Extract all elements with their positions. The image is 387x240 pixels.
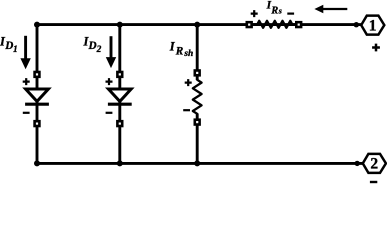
- wire top bus: [36, 23, 361, 26]
- current arrow I_Rs direction: [314, 5, 347, 14]
- svg-text:s: s: [278, 6, 282, 15]
- node junction top D1: [34, 22, 40, 28]
- label I_Rs: [266, 0, 282, 16]
- wire branch Rsh vertical upper: [196, 25, 199, 80]
- diode D1: [23, 71, 49, 128]
- label I_Rsh: [169, 39, 193, 58]
- terminal port 2: [363, 154, 386, 173]
- diode D2: [106, 71, 132, 128]
- node junction bottom Rsh: [194, 160, 200, 166]
- svg-text:R: R: [270, 5, 278, 16]
- resistor Rsh: [183, 69, 201, 126]
- current arrow I_D2: [106, 36, 116, 68]
- svg-text:1: 1: [13, 45, 18, 55]
- node junction bottom D1: [34, 160, 40, 166]
- wire branch D1 vertical: [36, 25, 39, 164]
- svg-text:D: D: [88, 40, 97, 52]
- label I_D2: [83, 35, 102, 55]
- wire branch D2 vertical: [118, 25, 121, 164]
- node junction terminal 2: [355, 161, 360, 166]
- svg-text:2: 2: [370, 156, 378, 173]
- node junction top D2: [117, 22, 123, 28]
- svg-text:sh: sh: [183, 49, 193, 59]
- svg-text:1: 1: [369, 17, 377, 34]
- label terminal 1 plus: [372, 44, 380, 52]
- svg-text:D: D: [4, 40, 13, 52]
- node junction bottom D2: [117, 160, 123, 166]
- current arrow I_D1: [20, 36, 30, 70]
- wire bottom bus: [36, 162, 363, 165]
- node junction terminal 1: [354, 22, 359, 27]
- label terminal 2 minus: [370, 181, 377, 183]
- svg-text:2: 2: [96, 45, 102, 55]
- node junction top Rsh: [194, 22, 200, 28]
- wire branch Rsh vertical lower: [196, 114, 199, 164]
- terminal port 1: [361, 16, 384, 35]
- label I_D1: [0, 35, 18, 55]
- resistor Rs: [246, 10, 303, 28]
- svg-text:R: R: [175, 46, 184, 58]
